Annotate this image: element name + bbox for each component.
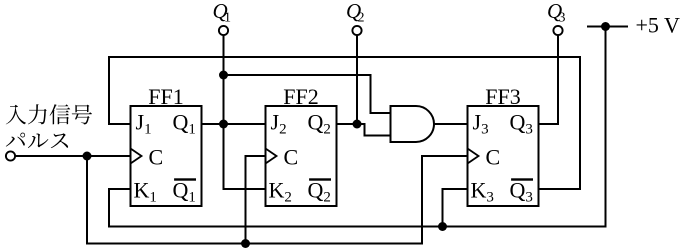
flip-flop FF3 box [468,106,539,206]
svg-text:+5 V: +5 V [636,13,681,38]
svg-text:C: C [149,145,164,170]
wire Q1 output to J2 [202,123,266,125]
wire Q1 branch to AND gate top input [224,75,391,113]
wire +5V down along right and bottom to K1 [109,27,606,227]
wire AND gate output to J3 [434,123,468,125]
overline of Qbar1 [174,178,196,180]
junction +5V rail to K3 [438,222,447,231]
pin C clock triangle [468,149,479,164]
svg-text:FF3: FF3 [485,84,520,109]
junction Q1 output row [219,120,228,129]
junction +5V rail [601,22,610,31]
svg-text:3: 3 [559,11,566,26]
svg-text:1: 1 [224,11,231,26]
junction Q2 output row [353,120,362,129]
svg-text:FF2: FF2 [283,84,318,109]
wire Qbar3 feedback to J1 (top rail) [109,57,580,189]
wire Q2 output to AND gate bottom input [337,124,391,136]
AND gate U1 [391,106,435,142]
pin C clock triangle [131,149,142,164]
svg-text:FF1: FF1 [148,84,183,109]
overline of Qbar2 [309,178,331,180]
wire Q3 output to terminal [539,35,559,124]
label: input signal pulse line 1 (nyuuryoku shingou) [6,104,92,124]
junction clock input branch [83,152,92,161]
svg-text:C: C [486,145,501,170]
overline of Qbar3 [511,178,533,180]
wire Q1 terminal stem down to K2 [224,35,266,189]
junction clock to FF2 C [241,239,250,248]
wire clock bottom rail to C of FF3 [87,156,468,244]
flip-flop FF1 box [131,106,202,206]
wire clock branch to C of FF2 [246,156,266,244]
svg-text:2: 2 [358,11,365,26]
pin C clock triangle [266,149,277,164]
wire Q2 terminal stem [356,35,358,124]
label: input signal pulse line 2 (parusu) [6,133,68,149]
flip-flop FF2 box [266,106,337,206]
wire input pulse to C of FF1 [15,155,131,157]
svg-text:C: C [284,145,299,170]
junction Q1/AND branch [219,71,228,80]
output terminal Q2 [352,26,361,35]
input terminal (open circle) [6,151,15,160]
output terminal Q3 [553,26,562,35]
output terminal Q1 [219,26,228,35]
wire +5V rail branch to K3 [443,189,468,227]
wire +5V rail stub [587,26,628,28]
